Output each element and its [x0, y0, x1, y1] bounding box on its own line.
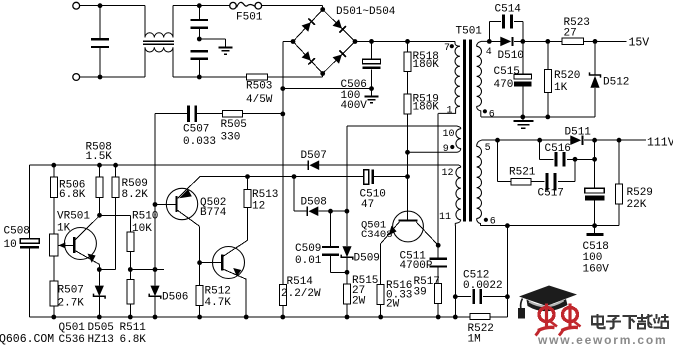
- label C509 0.01: [295, 243, 322, 267]
- svg-text:R529: R529: [627, 187, 653, 199]
- wire rail to R521: [498, 140, 512, 182]
- resistor R521: [511, 179, 531, 185]
- resistor R512: [196, 263, 203, 317]
- svg-text:C518: C518: [583, 241, 609, 253]
- svg-text:F501: F501: [236, 12, 263, 24]
- svg-text:160V: 160V: [583, 264, 610, 276]
- label C510 47: [360, 188, 386, 211]
- diode D510: [489, 37, 512, 47]
- wire R508 bottom: [99, 197, 101, 215]
- capacitor CY2: [191, 50, 209, 77]
- label Q501 C3408: [361, 219, 393, 241]
- node D506 top junction: [153, 267, 158, 272]
- ground earth symbol (line filter): [219, 48, 233, 54]
- svg-text:4: 4: [486, 47, 492, 58]
- svg-text:1M: 1M: [468, 334, 481, 345]
- label R513 12: [252, 189, 278, 213]
- capacitor C509: [322, 211, 347, 272]
- node R506 top: [51, 163, 56, 168]
- label D507: [301, 150, 327, 162]
- svg-text:1: 1: [447, 105, 453, 116]
- node R508 top: [97, 163, 102, 168]
- label R505 330: [221, 119, 247, 143]
- pin 12 label: [442, 168, 454, 179]
- capacitor C517: [531, 159, 575, 190]
- watermark Q606.COM: [0, 333, 54, 345]
- transformer T501 primary winding 7-1: [438, 41, 460, 113]
- logo text 电子下载站: [592, 314, 668, 329]
- resistor R519: [404, 71, 411, 114]
- label R519 180K: [413, 94, 440, 114]
- ground 15V section: [514, 117, 534, 128]
- label D509: [354, 252, 380, 264]
- svg-text:www.eeworm.com: www.eeworm.com: [537, 333, 667, 345]
- svg-text:10: 10: [4, 239, 17, 251]
- svg-text:11: 11: [439, 212, 451, 223]
- capacitor CY1: [191, 6, 209, 39]
- svg-text:5: 5: [485, 143, 491, 154]
- svg-text:VR501: VR501: [57, 210, 90, 222]
- transistor Q502 (B774) driver: [155, 177, 200, 263]
- node C512 left: [453, 294, 458, 299]
- label C518 100 160V: [583, 241, 610, 276]
- node bottom rail at R516: [378, 315, 383, 320]
- wire R519 to Q501 base: [407, 114, 409, 220]
- node D512 top: [593, 39, 598, 44]
- svg-text:12: 12: [252, 201, 265, 213]
- fuse F501: [230, 2, 262, 9]
- label VR501 1K: [57, 210, 90, 234]
- svg-text:1K: 1K: [554, 82, 568, 94]
- node bottom rail at D506: [153, 315, 158, 320]
- capacitor C508: [20, 165, 39, 317]
- resistor R508: [96, 165, 103, 197]
- wire D508 to vertical: [318, 210, 347, 212]
- label C514: [495, 3, 522, 15]
- wire D510 to R523: [514, 40, 562, 42]
- svg-text:9: 9: [443, 144, 449, 155]
- wire bottom AC rail left: [80, 76, 145, 78]
- wire C512 right to rail: [506, 297, 508, 317]
- svg-text:400V: 400V: [341, 100, 368, 112]
- wire +300V rail: [355, 40, 455, 42]
- node pin6 line junction: [505, 223, 510, 228]
- svg-text:C517: C517: [538, 188, 564, 200]
- wire emitter to R509 corner: [99, 269, 115, 271]
- node C518 bottom: [592, 223, 597, 228]
- label C516: [545, 143, 571, 155]
- node bottom rail at Q503 emitter: [244, 315, 249, 320]
- node pin 4: [487, 39, 492, 44]
- svg-text:6.8K: 6.8K: [59, 189, 86, 201]
- node C516 left top: [537, 138, 542, 143]
- node bottom rail at R507: [51, 315, 56, 320]
- node R529 top: [617, 138, 622, 143]
- capacitor C507 line: [155, 105, 222, 122]
- label R522 1M: [468, 323, 494, 345]
- svg-text:R514: R514: [287, 276, 314, 288]
- resistor R518: [404, 41, 411, 71]
- svg-text:R513: R513: [252, 189, 278, 201]
- node C516 right: [592, 157, 597, 162]
- node C506 ground junction: [369, 86, 374, 91]
- node R508/R510/collector junction: [97, 213, 102, 218]
- label F501: [236, 12, 263, 24]
- transformer T501 secondary winding 5-6: [477, 140, 482, 226]
- label R509 8.2K: [122, 178, 149, 201]
- node bottom rail at CY2: [197, 75, 202, 80]
- svg-text:470: 470: [494, 79, 514, 91]
- pin 4 label: [486, 47, 492, 58]
- inductor L501 common-mode choke: [143, 6, 174, 77]
- node R513 top: [245, 174, 250, 179]
- node bottom rail at R517: [436, 315, 441, 320]
- zener diode D512: [590, 41, 601, 117]
- ground plate C518: [587, 226, 604, 235]
- svg-text:D507: D507: [301, 150, 327, 162]
- node C509 top: [328, 209, 333, 214]
- resistor R506: [50, 165, 57, 197]
- node R521 top: [495, 138, 500, 143]
- wire bottom rail: [30, 316, 508, 318]
- wire R503 to bridge bottom: [268, 74, 323, 78]
- label R523 27: [564, 17, 590, 40]
- pin 6 label and polarity dot: [483, 109, 495, 120]
- wire Q502 emitter bus left part: [200, 176, 364, 178]
- label Q502 B774: [200, 197, 227, 219]
- label T501: [456, 26, 483, 38]
- capacitor C511: [430, 245, 447, 283]
- bridge rectifier D501~D504: [291, 7, 358, 76]
- label D506: [162, 292, 188, 304]
- pin 6 (lower) label and polarity dot: [484, 217, 496, 228]
- svg-text:4700P: 4700P: [400, 260, 433, 272]
- logo eeworm bug characters: [536, 304, 581, 336]
- svg-text:HZ13: HZ13: [88, 334, 114, 345]
- wire C507 to Q502 base: [154, 114, 156, 205]
- svg-text:Q606.COM: Q606.COM: [0, 333, 54, 345]
- pin 5 label: [485, 143, 491, 154]
- capacitor C506: [363, 41, 381, 88]
- capacitor CX (across AC input): [91, 6, 109, 77]
- wire R509 to emitter line: [99, 197, 115, 269]
- node bottom rail at D505: [97, 315, 102, 320]
- svg-text:39: 39: [414, 286, 427, 298]
- wire C510 to base vertical: [374, 176, 407, 178]
- label 111V: [647, 137, 673, 150]
- label D510: [498, 50, 524, 62]
- label R521: [509, 166, 536, 178]
- node D508 branch: [292, 174, 297, 179]
- label R511 6.8K: [120, 322, 147, 345]
- resistor R510: [127, 232, 134, 252]
- node R509 top: [113, 163, 118, 168]
- resistor R515: [344, 272, 351, 317]
- node negative/R505 junction: [280, 112, 285, 117]
- label D505 HZ13: [88, 322, 114, 345]
- resistor R513: [244, 177, 251, 208]
- resistor R511: [127, 280, 134, 304]
- label C512 0.0022: [463, 269, 503, 292]
- transformer T501 winding 10-9: [408, 126, 461, 152]
- label D508: [301, 196, 327, 208]
- label D511: [565, 126, 592, 138]
- node R518 top: [405, 39, 410, 44]
- svg-text:7: 7: [444, 43, 450, 54]
- svg-text:0.033: 0.033: [183, 136, 216, 148]
- svg-text:100: 100: [583, 252, 603, 264]
- node bottom-rail/C input junction: [98, 75, 103, 80]
- wire fuse to bridge top: [262, 6, 323, 10]
- wire R513 to transistor collector: [247, 208, 249, 241]
- resistor R505: [222, 111, 242, 117]
- wire top rail to fuse: [173, 5, 230, 7]
- svg-text:D509: D509: [354, 252, 380, 264]
- resistor R507: [50, 256, 58, 306]
- pin 11 label: [439, 212, 451, 223]
- node collector/pin1 junction: [436, 243, 441, 248]
- label C508 10: [4, 225, 30, 251]
- transistor Q503 (driver stage): [200, 240, 248, 317]
- svg-text:C507: C507: [183, 123, 209, 135]
- label R514 2.2/2W: [281, 276, 321, 300]
- pin 7 label and polarity dot: [444, 43, 454, 54]
- svg-text:C515: C515: [494, 66, 520, 78]
- label R507 2.7K: [58, 284, 85, 309]
- transistor Q501 (C536) error amp: [58, 216, 99, 270]
- svg-text:R503: R503: [246, 81, 272, 93]
- svg-text:27: 27: [564, 28, 577, 40]
- svg-text:180K: 180K: [413, 101, 440, 113]
- node Q502 base junction: [153, 202, 158, 207]
- logo url www.eeworm.com: [537, 333, 667, 345]
- label C507 0.033: [183, 123, 216, 148]
- node C506 top: [369, 39, 374, 44]
- node bottom rail at R515: [345, 315, 350, 320]
- wire pin1 to Q501 collector: [437, 113, 439, 245]
- node C518 top: [592, 138, 597, 143]
- wire top AC rail left: [80, 5, 145, 7]
- label R529 22K: [627, 187, 653, 211]
- label R517 39: [414, 276, 440, 298]
- node C512 right: [505, 294, 510, 299]
- label R516 0.33 2W: [386, 280, 412, 311]
- zener diode D509: [341, 246, 353, 272]
- capacitor C516: [540, 140, 595, 166]
- pin 9 label and polarity dot: [443, 144, 455, 155]
- wire D507 to pin 12: [319, 164, 459, 166]
- svg-text:10: 10: [443, 129, 455, 140]
- transformer T501 winding 12-11: [455, 165, 461, 226]
- resistor R516: [377, 285, 384, 318]
- wire R507 to rail: [53, 306, 55, 317]
- svg-text:6.8K: 6.8K: [120, 334, 147, 345]
- node bottom rail at R511: [128, 315, 133, 320]
- capacitor C518: [585, 140, 605, 226]
- label C506 100 400V: [341, 79, 368, 112]
- zener diode D505: [94, 270, 106, 318]
- wire emitter line right segment: [130, 269, 164, 271]
- svg-text:R507: R507: [58, 284, 84, 296]
- svg-text:0.0022: 0.0022: [463, 280, 503, 292]
- label D501~D504: [336, 6, 396, 18]
- node pin9 junction: [405, 150, 410, 155]
- terminal J1 (AC line top): [73, 2, 80, 9]
- svg-text:C3408: C3408: [361, 229, 393, 241]
- resistor R503: [247, 74, 268, 80]
- wire CY junction to earth: [199, 39, 225, 47]
- svg-text:R521: R521: [509, 166, 536, 178]
- node top-rail/C input junction: [98, 3, 103, 8]
- node C514/C515 junction: [520, 39, 525, 44]
- node C516/C517 junction: [573, 157, 578, 162]
- wire C506 negative return: [283, 88, 372, 90]
- diode D508: [307, 206, 318, 216]
- capacitor C515: [514, 41, 532, 117]
- svg-text:111V: 111V: [647, 137, 673, 150]
- wire 15V ground return: [481, 116, 595, 118]
- svg-text:8.2K: 8.2K: [122, 189, 149, 201]
- svg-text:D505: D505: [88, 322, 114, 334]
- node ground junction C515: [520, 115, 525, 120]
- svg-text:C536: C536: [59, 334, 85, 345]
- svg-text:T501: T501: [456, 26, 483, 38]
- svg-text:C509: C509: [295, 243, 321, 255]
- node bottom rail at pin11: [453, 315, 458, 320]
- node negative/C506 return junction: [280, 86, 285, 91]
- capacitor C514: [489, 15, 523, 42]
- label R520 1K: [554, 70, 580, 94]
- diode D511: [570, 135, 582, 145]
- potentiometer VR501: [50, 197, 59, 256]
- svg-text:2W: 2W: [352, 295, 366, 307]
- svg-text:4/5W: 4/5W: [246, 94, 273, 106]
- svg-text:R512: R512: [205, 286, 231, 298]
- svg-text:D506: D506: [162, 292, 188, 304]
- svg-text:1.5K: 1.5K: [86, 151, 113, 163]
- wire base junction down to D506 line: [154, 205, 156, 270]
- node bottom rail at R512: [197, 315, 202, 320]
- node C510/base junction: [405, 174, 410, 179]
- wire bridge negative vertical: [283, 42, 293, 285]
- svg-text:4.7K: 4.7K: [205, 297, 232, 309]
- wire D508 branch: [294, 177, 307, 212]
- resistor R522: [470, 313, 490, 319]
- node CY junction: [197, 37, 202, 42]
- svg-text:R520: R520: [554, 70, 580, 82]
- wire D511 to 111V output: [584, 139, 646, 141]
- resistor R523: [562, 38, 584, 44]
- wire 111V rail left: [482, 139, 571, 141]
- svg-text:C514: C514: [495, 3, 522, 15]
- node R520 top: [545, 39, 550, 44]
- diode D507: [308, 160, 319, 170]
- svg-text:R505: R505: [221, 119, 247, 131]
- transformer T501 secondary winding 4-6: [477, 41, 490, 117]
- svg-text:D501~D504: D501~D504: [336, 6, 396, 18]
- svg-text:D510: D510: [498, 50, 524, 62]
- svg-text:2W: 2W: [386, 299, 400, 311]
- resistor R529: [595, 140, 623, 226]
- wire R523 to 15V output: [584, 40, 627, 42]
- resistor R520: [544, 41, 551, 117]
- wire bottom rail to R503: [173, 76, 247, 78]
- svg-text:C516: C516: [545, 143, 571, 155]
- zener diode D506: [149, 270, 161, 318]
- logo eeworm graduation cap: [518, 286, 577, 319]
- label C515 470: [494, 66, 520, 91]
- svg-text:D508: D508: [301, 196, 327, 208]
- node R510/R511 junction: [128, 267, 133, 272]
- wire R510 to R511: [129, 251, 131, 279]
- pin 1 label: [447, 105, 453, 116]
- svg-text:2.2/2W: 2.2/2W: [281, 288, 321, 300]
- node top rail at CY1: [197, 3, 202, 8]
- node D509 top junction: [345, 209, 350, 214]
- node D509/R515 junction: [345, 270, 350, 275]
- label D512: [603, 76, 629, 88]
- svg-text:22K: 22K: [627, 199, 647, 211]
- label R518 180K: [413, 51, 440, 71]
- wire pin6 line to C512: [506, 226, 508, 297]
- wire pin 11 down: [454, 226, 456, 317]
- resistor R514: [279, 284, 286, 317]
- wire R511 to rail: [129, 304, 131, 317]
- terminal J2 (AC line bottom): [73, 74, 80, 81]
- svg-text:330: 330: [221, 131, 241, 143]
- svg-text:2.7K: 2.7K: [58, 297, 85, 309]
- svg-text:R510: R510: [132, 211, 158, 223]
- node bottom rail at R514: [280, 315, 285, 320]
- wire lower secondary return: [481, 225, 595, 227]
- transformer T501 core: [463, 40, 472, 222]
- label C511 4700P: [400, 250, 433, 272]
- svg-text:B774: B774: [200, 207, 227, 219]
- label Q501 C536: [59, 322, 86, 345]
- node Q502 collector / base junction: [197, 260, 202, 265]
- svg-text:47: 47: [361, 199, 374, 211]
- svg-text:15V: 15V: [629, 37, 650, 50]
- label R512 4.7K: [205, 286, 232, 309]
- node ground junction R520: [545, 115, 550, 120]
- capacitor C512: [455, 289, 507, 304]
- label R508 1.5K: [86, 142, 113, 164]
- svg-text:6: 6: [489, 110, 495, 121]
- capacitor C510: [364, 170, 375, 185]
- label R510 10K: [132, 211, 158, 235]
- label 15V: [629, 37, 650, 50]
- svg-text:180K: 180K: [413, 59, 440, 71]
- svg-text:D512: D512: [603, 76, 629, 88]
- node Q501(C536) emitter junction: [97, 267, 102, 272]
- wire pin10 vertical: [346, 126, 348, 246]
- svg-text:12: 12: [442, 168, 454, 179]
- label C517: [538, 188, 564, 200]
- label R506 6.8K: [59, 180, 86, 202]
- label R515 27 2W: [352, 275, 378, 307]
- pin 10 label: [443, 129, 455, 140]
- label R503 4/5W: [246, 81, 273, 106]
- svg-text:R511: R511: [120, 322, 147, 334]
- wire R505 to negative vertical: [243, 113, 283, 115]
- svg-text:0.01: 0.01: [295, 255, 322, 267]
- ground below C506: [365, 89, 379, 103]
- svg-text:C508: C508: [4, 225, 30, 237]
- svg-text:Q501: Q501: [59, 322, 86, 334]
- resistor R509: [112, 165, 119, 197]
- svg-text:D511: D511: [565, 126, 592, 138]
- wire junction to R510: [100, 215, 131, 232]
